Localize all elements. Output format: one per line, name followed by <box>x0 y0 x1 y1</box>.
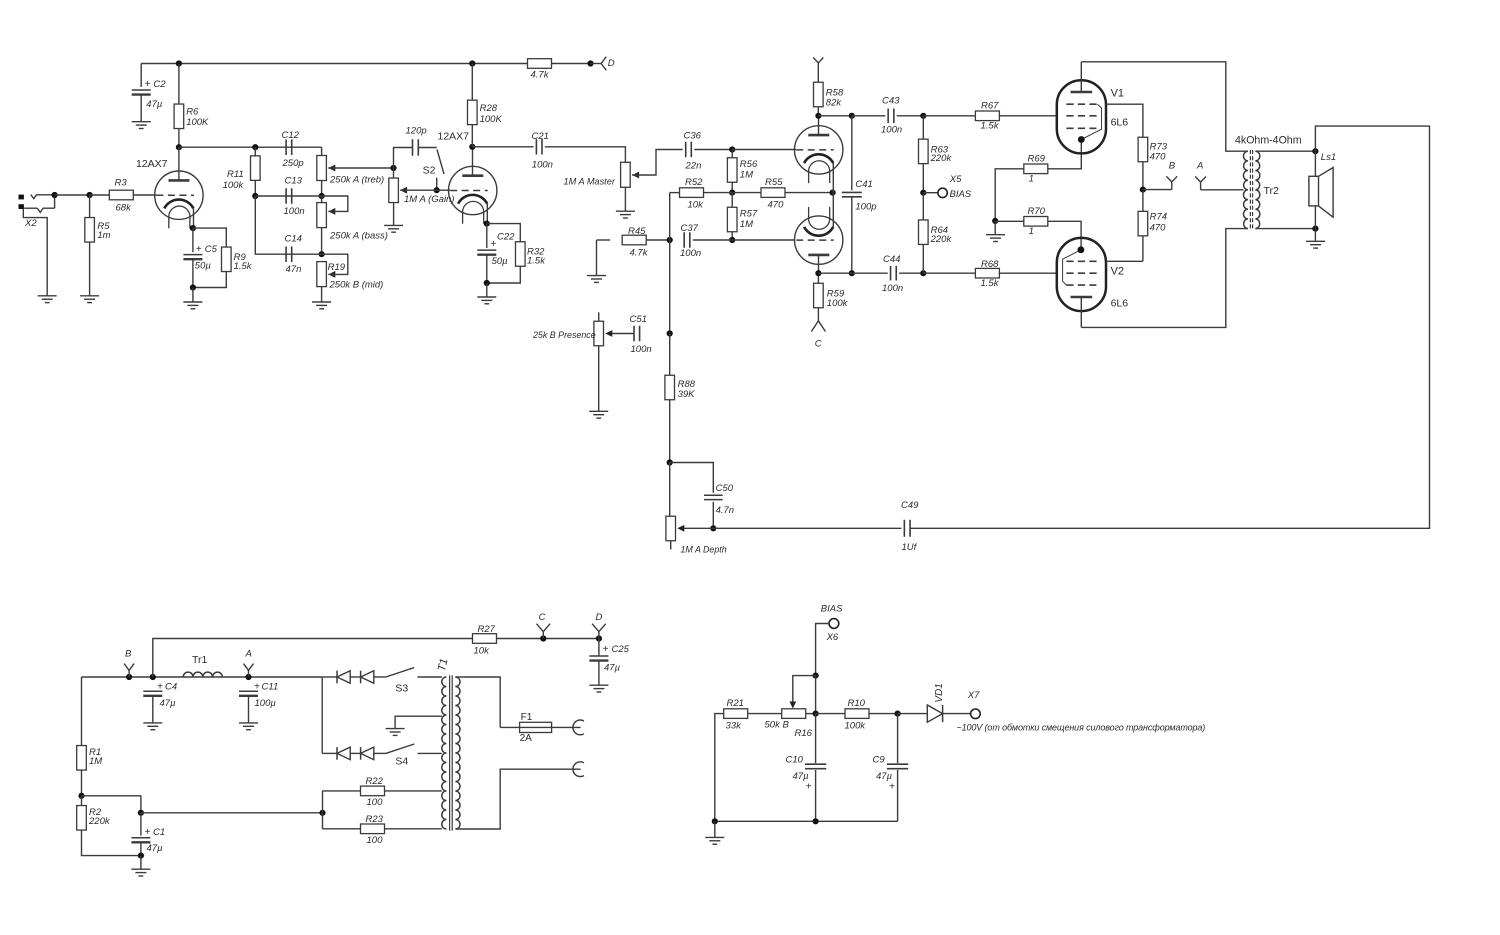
label C21 <box>532 131 549 142</box>
fuse F1 <box>520 722 552 732</box>
triode PI lower heater <box>809 207 830 229</box>
svg-text:C14: C14 <box>285 234 302 245</box>
wire C25 top lead <box>598 639 600 656</box>
svg-text:R21: R21 <box>727 698 744 709</box>
svg-text:22n: 22n <box>685 161 702 172</box>
label C25 <box>612 644 630 655</box>
wire R45 to C37 node <box>646 239 670 241</box>
wire C44 to R64 node <box>899 272 923 274</box>
label R10 <box>848 698 866 709</box>
label B screens <box>1169 160 1176 171</box>
triode 12AX7b grid <box>450 190 488 192</box>
terminal A center tap <box>1195 177 1206 190</box>
wire R21 left <box>715 714 724 822</box>
triode PI lower envelope <box>795 216 843 264</box>
wire X6 lead <box>816 624 829 676</box>
capacitor C51 <box>634 326 640 342</box>
label BIAS X5 <box>950 189 972 200</box>
diode rect 4 <box>361 747 374 760</box>
wire bass wiper loop <box>322 196 348 211</box>
resistor R45 <box>622 235 646 245</box>
svg-text:X2: X2 <box>24 218 37 229</box>
wire X6 drop <box>815 676 817 714</box>
wire node to VD1 <box>898 713 928 715</box>
svg-text:R27: R27 <box>478 624 496 635</box>
label R64 <box>931 225 948 236</box>
wire R16 to node <box>806 713 816 715</box>
label C9 value <box>876 771 893 782</box>
svg-text:470: 470 <box>1150 152 1167 163</box>
wire C50 bottom lead <box>712 502 714 529</box>
svg-text:100n: 100n <box>680 248 701 259</box>
terminal C below R59 <box>811 314 825 332</box>
svg-text:S4: S4 <box>395 755 408 767</box>
label R19 <box>328 262 346 273</box>
pot gain wiper arrow <box>400 187 407 194</box>
resistor R9 <box>222 247 232 271</box>
wire mid pot to ground <box>321 287 323 302</box>
label C4 value <box>160 698 177 709</box>
pentode V2 beam link <box>1063 250 1081 285</box>
wire R52 lead <box>670 192 680 194</box>
pentode V2 plate lead <box>1080 297 1082 327</box>
svg-text:BIAS: BIAS <box>821 603 843 614</box>
label T1 <box>436 657 450 672</box>
ground (C11) <box>239 723 258 730</box>
label C22 plus <box>490 239 496 250</box>
triode PI upper envelope <box>795 126 843 174</box>
wire plate V1b to C21 <box>472 146 533 148</box>
node B+ stage2 <box>469 60 475 66</box>
triode 12AX7a grid <box>156 194 194 196</box>
wire C5 top lead <box>192 228 194 252</box>
node R5 branch <box>87 192 93 198</box>
svg-text:R16: R16 <box>795 728 813 739</box>
ground (bias) <box>705 837 724 844</box>
svg-text:6L6: 6L6 <box>1111 297 1129 309</box>
label C5 plus <box>196 244 202 255</box>
svg-text:R52: R52 <box>685 177 703 188</box>
jack X2 ring contact <box>24 207 37 209</box>
svg-text:X5: X5 <box>949 174 962 185</box>
svg-text:C44: C44 <box>883 254 900 265</box>
label C36 value <box>685 161 702 172</box>
label R64 value <box>930 234 953 245</box>
ground (mid pot) <box>312 302 331 309</box>
label R23 <box>366 814 384 825</box>
capacitor C13 <box>286 188 292 204</box>
potentiometer 250k A bass <box>317 203 327 228</box>
wire 120p to S2 <box>418 147 436 149</box>
label S4 <box>395 755 408 767</box>
resistor R57 <box>727 207 737 232</box>
label C50 <box>716 483 734 494</box>
svg-text:B: B <box>125 648 132 659</box>
label Tr1 <box>192 654 208 666</box>
label V2 <box>1111 266 1124 278</box>
label R1 value <box>89 756 102 767</box>
label C51 <box>630 314 647 325</box>
triode 12AX7b envelope <box>449 166 497 214</box>
svg-text:R69: R69 <box>1028 153 1046 164</box>
terminal X5 <box>938 188 947 197</box>
svg-text:R74: R74 <box>1150 212 1167 223</box>
wire C11 ground lead <box>248 696 250 723</box>
node slope mid <box>252 193 258 199</box>
wire R32 loop bottom <box>487 266 521 283</box>
label C2 value <box>146 99 163 110</box>
wire T1 sec top <box>455 677 500 727</box>
resistor R32 <box>516 242 526 267</box>
wire 120p branch up <box>394 148 413 169</box>
capacitor C11 <box>239 691 258 696</box>
label pot treb <box>329 175 384 186</box>
triode PI lower cathode <box>804 227 833 236</box>
resistor R56 <box>727 158 737 183</box>
node treb-bass <box>319 193 325 199</box>
terminal X7 <box>971 709 981 719</box>
wire R57 bottom lead <box>731 232 733 240</box>
label C9 plus <box>889 781 895 792</box>
label C11 plus <box>254 682 260 693</box>
svg-text:25k B Presence: 25k B Presence <box>532 330 596 340</box>
label C1 plus <box>145 827 151 838</box>
wire R27 to C fork <box>497 638 599 640</box>
svg-text:47µ: 47µ <box>146 99 163 110</box>
label X6 <box>826 632 839 643</box>
switch S2 blade <box>437 150 444 175</box>
resistor R6 <box>174 104 184 129</box>
label R3 <box>115 178 128 189</box>
resistor R70 <box>1024 217 1048 227</box>
label C25 plus <box>603 644 609 655</box>
wire T1 sec bottom <box>455 769 580 829</box>
switch S4 blade <box>386 744 414 753</box>
capacitor C10 <box>805 764 826 769</box>
wire R67 to V1 grid <box>999 115 1057 117</box>
wire V2 plate to OT <box>1081 229 1248 328</box>
svg-text:+: + <box>157 682 163 693</box>
transformer T1 secondary <box>455 677 460 829</box>
jack X2 tip contact <box>31 195 55 199</box>
resistor R5 <box>85 218 95 243</box>
label C11 <box>262 682 279 693</box>
svg-text:C1: C1 <box>153 827 165 838</box>
wire R64 top lead <box>922 193 924 221</box>
label R58 value <box>826 98 843 109</box>
label X5 <box>949 174 962 185</box>
svg-text:1.5k: 1.5k <box>527 255 546 266</box>
svg-text:C50: C50 <box>716 483 734 494</box>
wire row2 lead <box>322 752 337 754</box>
node B screen <box>1140 187 1146 193</box>
capacitor C1 <box>131 838 150 843</box>
wire gain pot ground lead <box>393 203 395 226</box>
ground (gain pot) <box>384 225 403 232</box>
capacitor C41 <box>842 192 862 196</box>
transformer Tr2 core <box>1250 150 1252 230</box>
wire R63 bottom lead <box>922 163 924 192</box>
label D top <box>608 58 615 69</box>
resistor R1 <box>77 746 87 771</box>
terminal C supply <box>537 624 551 639</box>
wire R28 top lead <box>471 64 473 101</box>
node PI grid lower <box>729 237 735 243</box>
wire R88 to depth node <box>669 400 671 463</box>
wire R11 bottom lead <box>254 180 256 196</box>
speaker Ls1 <box>1309 168 1333 218</box>
svg-text:100K: 100K <box>186 117 209 128</box>
svg-text:100k: 100k <box>827 298 849 309</box>
svg-text:1: 1 <box>1029 226 1034 237</box>
wire bias ground rail <box>715 820 898 822</box>
triode 12AX7a heater <box>169 206 190 228</box>
pot presence ground lead <box>598 346 600 412</box>
pot depth bottom stub <box>670 541 672 550</box>
svg-text:C5: C5 <box>205 244 218 255</box>
triode PI upper grid <box>796 149 834 151</box>
triode 12AX7a cathode lead <box>193 208 195 228</box>
wire C9 top lead <box>897 714 899 764</box>
svg-text:1M: 1M <box>740 219 753 230</box>
svg-text:BIAS: BIAS <box>950 189 972 200</box>
label Ls1 <box>1321 152 1336 163</box>
ground (presence) <box>589 411 608 418</box>
label R23 value <box>367 835 384 846</box>
label R9 value <box>234 261 253 272</box>
label pot presence <box>532 330 596 340</box>
label C12 <box>282 130 300 141</box>
label R63 value <box>930 153 953 164</box>
wire to X5 <box>923 192 938 194</box>
wire R32 loop top <box>487 224 521 242</box>
svg-text:V1: V1 <box>1111 88 1124 100</box>
label R32 value <box>527 255 546 266</box>
label pot mid <box>329 279 384 290</box>
node D rail <box>587 60 593 66</box>
wire R64 bottom lead <box>922 244 924 273</box>
wire VD1 to X7 <box>943 713 971 715</box>
capacitor C4 <box>143 691 162 696</box>
label R2 value <box>88 816 111 827</box>
svg-text:100: 100 <box>367 797 384 808</box>
wire C25 ground lead <box>598 661 600 686</box>
label C51 value <box>631 344 652 355</box>
svg-text:R56: R56 <box>740 159 758 170</box>
wire diode branch drop <box>321 677 323 753</box>
node PI tail junction <box>729 190 735 196</box>
potentiometer R16 50k B <box>782 709 806 719</box>
wire R58 top lead <box>817 69 819 82</box>
wire master wiper <box>632 150 683 176</box>
node B terminal <box>126 674 132 680</box>
node plate V1a <box>176 144 182 150</box>
label C4 <box>165 682 177 693</box>
pentode V1 beam grid <box>1066 127 1096 129</box>
wire R2 bottom lead <box>82 830 141 856</box>
diode rect 3 <box>337 747 350 760</box>
pentode V1 control grid <box>1066 115 1097 117</box>
label C supply <box>539 612 546 623</box>
resistor R11 <box>251 156 261 181</box>
svg-text:100: 100 <box>367 835 384 846</box>
svg-text:47µ: 47µ <box>147 843 164 854</box>
wire R70 right to V2 cathode <box>1048 221 1081 250</box>
wire T1 center tap <box>395 716 442 728</box>
svg-text:R22: R22 <box>366 776 384 787</box>
svg-text:C41: C41 <box>855 179 872 190</box>
svg-text:1.5k: 1.5k <box>981 278 1000 289</box>
svg-text:4kOhm-4Ohm: 4kOhm-4Ohm <box>1235 135 1302 147</box>
jack X2 sleeve contacts <box>19 195 24 209</box>
pentode V1 beam link <box>1081 104 1101 139</box>
ground (R5) <box>80 296 99 303</box>
label C41 value <box>855 202 876 213</box>
label R6 value <box>186 117 209 128</box>
triode 12AX7b cathode <box>458 195 487 204</box>
capacitor C14 <box>286 246 292 262</box>
wire to R68 <box>923 272 976 274</box>
wire R68 to V2 grid <box>999 272 1057 274</box>
svg-text:C21: C21 <box>532 131 549 142</box>
wire gain pot top <box>393 168 395 178</box>
svg-text:100p: 100p <box>855 202 876 213</box>
wire C1 top lead <box>140 813 142 836</box>
label pot master <box>564 177 616 187</box>
wire C14 row <box>255 196 321 254</box>
node C1 top <box>138 810 144 816</box>
wire mid wiper loop <box>322 254 348 274</box>
label C44 value <box>882 283 903 294</box>
resistor R10 <box>845 709 869 719</box>
label C2 <box>153 79 166 90</box>
svg-text:100k: 100k <box>845 720 867 731</box>
label R68 <box>981 259 999 270</box>
node C50 junction <box>667 459 673 465</box>
node C41 bottom <box>849 270 855 276</box>
label F1 <box>521 712 533 723</box>
label C10 <box>786 754 804 765</box>
svg-text:47µ: 47µ <box>876 771 893 782</box>
wire R56 top lead <box>731 150 733 158</box>
svg-text:C9: C9 <box>873 754 886 765</box>
wire between diodes row2 <box>350 752 360 754</box>
svg-text:4.7n: 4.7n <box>716 505 735 516</box>
wire R57 top lead <box>731 193 733 208</box>
resistor R64 <box>919 220 929 245</box>
wire R23 right lead <box>385 828 442 830</box>
label R21 <box>727 698 744 709</box>
label C44 <box>883 254 900 265</box>
node cathode ground V1a <box>190 284 196 290</box>
terminal A supply <box>244 664 254 677</box>
svg-text:12AX7: 12AX7 <box>438 130 470 142</box>
node speaker top <box>1312 148 1318 154</box>
svg-text:220k: 220k <box>930 234 953 245</box>
switch S3 contact <box>418 676 442 678</box>
label R52 value <box>688 199 705 210</box>
node C fork <box>540 635 546 641</box>
capacitor C25 <box>589 656 608 661</box>
wire R59 bottom lead <box>817 308 819 314</box>
svg-text:1.5k: 1.5k <box>981 120 1000 131</box>
wire bass pot top <box>321 196 323 203</box>
pot bass wiper arrow <box>328 208 335 215</box>
label C5 value <box>195 261 212 272</box>
svg-text:C12: C12 <box>282 130 300 141</box>
label impedance <box>1235 135 1302 147</box>
wire diode row1 lead <box>322 676 337 678</box>
svg-text:D: D <box>608 58 615 69</box>
ground (R69/R70) <box>986 235 1005 242</box>
node PI plate upper <box>815 113 821 119</box>
svg-text:R3: R3 <box>115 178 128 189</box>
resistor R69 <box>1024 164 1048 174</box>
pot depth wiper arrow <box>677 525 684 532</box>
svg-text:100K: 100K <box>480 114 503 125</box>
wire cathode to ground <box>192 288 194 303</box>
svg-text:C4: C4 <box>165 682 177 693</box>
wire C43 left <box>852 115 886 117</box>
wire C51 to R88 <box>669 334 671 376</box>
wire C41 bottom <box>818 272 851 274</box>
label V1 type <box>1111 117 1129 129</box>
capacitor C22 <box>477 250 496 255</box>
wire R63 top lead <box>922 116 924 140</box>
node C9 top <box>895 711 901 717</box>
pot treb wiper arrow <box>328 165 335 172</box>
terminal D top <box>591 57 607 71</box>
wire gain wiper <box>400 189 437 191</box>
wire C22 to ground <box>486 283 488 297</box>
label R16 50k <box>765 720 790 731</box>
ground (C4) <box>143 723 162 730</box>
pot master wiper arrow <box>632 172 639 179</box>
label C1 value <box>147 843 164 854</box>
wire R16 wiper feed <box>793 676 816 702</box>
wire C43 to R63 node <box>897 115 924 117</box>
potentiometer 25k B Presence <box>594 321 604 346</box>
svg-text:82k: 82k <box>826 98 843 109</box>
svg-text:1M A Master: 1M A Master <box>564 177 616 187</box>
pentode V2 screen grid <box>1066 260 1097 262</box>
node A terminal <box>245 674 251 680</box>
diode VD1 <box>927 705 942 722</box>
triode PI upper plate lead <box>818 116 820 135</box>
svg-text:47µ: 47µ <box>793 771 810 782</box>
capacitor C36 <box>686 142 692 158</box>
wire A to primary CT <box>1201 189 1244 191</box>
node mid top <box>319 251 325 257</box>
resistor R3 <box>109 190 133 200</box>
jack X2 sleeve wire <box>23 209 47 296</box>
svg-text:A: A <box>245 648 252 659</box>
label R57 value <box>740 219 753 230</box>
terminal B screens <box>1166 176 1177 189</box>
svg-text:R28: R28 <box>480 103 498 114</box>
triode 12AX7a plate <box>169 179 190 182</box>
label R28 value <box>480 114 503 125</box>
capacitor C43 <box>888 109 894 124</box>
jack X2 ring spring <box>37 208 54 212</box>
node bias gnd mid <box>813 818 819 824</box>
pentode V2 plate <box>1071 296 1093 298</box>
wire B+ rail <box>141 63 590 65</box>
potentiometer 1M A Depth <box>666 516 676 541</box>
transformer Tr2 secondary <box>1255 151 1259 228</box>
potentiometer 250k A treb <box>317 156 327 181</box>
label C41 <box>855 179 872 190</box>
